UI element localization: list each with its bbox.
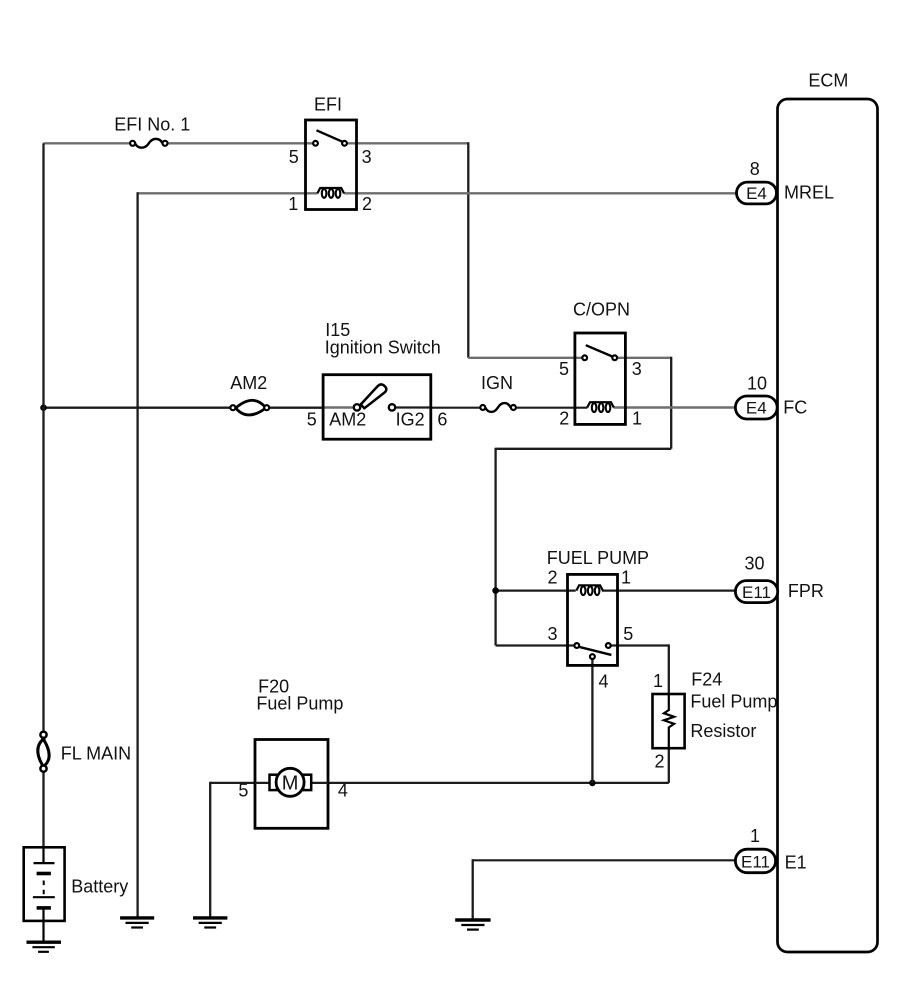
node: junction pin4/bottom run	[589, 780, 596, 787]
svg-text:3: 3	[632, 359, 642, 379]
svg-text:5: 5	[307, 410, 317, 430]
svg-text:Ignition Switch: Ignition Switch	[325, 338, 441, 358]
svg-text:AM2: AM2	[230, 373, 267, 393]
wire: EFI coil pin 2 to ECM MREL	[344, 192, 737, 194]
svg-text:Fuel Pump: Fuel Pump	[256, 694, 343, 714]
svg-text:2: 2	[654, 752, 664, 772]
coil C/OPN	[587, 402, 614, 412]
coil EFI	[317, 188, 344, 198]
wire: battery column vertical	[42, 143, 44, 735]
fuse IGN	[480, 373, 516, 412]
switch I15 Ignition Switch	[307, 320, 448, 439]
svg-text:1: 1	[750, 826, 760, 846]
svg-text:E1: E1	[785, 852, 807, 872]
brush right	[303, 775, 311, 790]
switch blade FUEL PUMP	[580, 647, 612, 655]
svg-text:IG2: IG2	[396, 410, 425, 430]
fuse EFI No. 1	[114, 114, 190, 147]
svg-text:4: 4	[338, 781, 348, 801]
svg-text:30: 30	[744, 554, 764, 574]
fuse AM2 (fusible link)	[230, 373, 269, 415]
svg-text:FL MAIN: FL MAIN	[61, 743, 131, 763]
wire: horizontal y=449	[496, 448, 672, 450]
node: junction at battery column	[40, 404, 47, 411]
svg-text:3: 3	[547, 624, 557, 644]
connector E11 pin 30 FPR	[735, 554, 824, 603]
motor F20 Fuel Pump	[238, 676, 348, 828]
brush left	[270, 775, 278, 790]
svg-text:FC: FC	[783, 398, 807, 418]
relay FUEL PUMP	[547, 548, 649, 692]
connector E4 pin 8 MREL	[737, 159, 835, 204]
svg-text:3: 3	[362, 147, 372, 167]
svg-text:1: 1	[653, 671, 663, 691]
node: junction at fuel pump relay feed	[492, 587, 499, 594]
wire: FUEL PUMP pin 4 vertical	[591, 658, 593, 783]
svg-text:FPR: FPR	[788, 581, 824, 601]
svg-text:EFI: EFI	[314, 94, 342, 114]
blade I15	[361, 384, 387, 408]
svg-text:5: 5	[238, 781, 248, 801]
motor circle M	[276, 768, 304, 796]
wire: to FUEL PUMP pin 2	[496, 589, 576, 591]
resistor F24 Fuel Pump Resistor	[653, 670, 778, 772]
svg-text:4: 4	[598, 671, 608, 691]
ECM box	[778, 71, 878, 952]
wire: C/OPN pin 3 out	[615, 357, 672, 359]
svg-text:F24: F24	[691, 670, 722, 690]
wire: C/OPN pin 1 to ECM FC	[614, 406, 736, 408]
svg-text:FUEL PUMP: FUEL PUMP	[547, 548, 649, 568]
svg-text:5: 5	[623, 624, 633, 644]
connector E11 pin 1 E1	[735, 826, 806, 873]
svg-text:ECM: ECM	[808, 71, 848, 91]
svg-text:1: 1	[288, 194, 298, 214]
relay EFI	[288, 94, 372, 213]
wire: resistor bottom lead down	[668, 747, 670, 783]
svg-text:AM2: AM2	[329, 410, 366, 430]
wire: bottom run fuel pump to resistor	[328, 782, 669, 784]
svg-text:E4: E4	[746, 184, 767, 203]
relay C/OPN	[559, 300, 642, 429]
coil FUEL PUMP	[576, 585, 603, 595]
svg-text:6: 6	[437, 410, 447, 430]
wire: fuel pump pin 5 to ground drop	[210, 782, 255, 784]
svg-text:IGN: IGN	[481, 373, 513, 393]
wire: ECM E1 to ground	[473, 859, 736, 861]
wire: ignition switch internal leads	[323, 406, 357, 408]
svg-text:1: 1	[632, 409, 642, 429]
wire: ignition switch pin 6 to C/OPN pin 2	[431, 407, 483, 409]
wire: vertical x=137.6 to ground	[136, 192, 138, 916]
svg-text:10: 10	[747, 374, 767, 394]
svg-text:M: M	[282, 773, 299, 795]
svg-text:E11: E11	[742, 583, 771, 602]
switch blade EFI	[317, 130, 344, 142]
svg-text:5: 5	[559, 359, 569, 379]
wire: top feed from battery node to EFI relay pin 5 (y=143)	[44, 142, 134, 144]
wire: vertical x=495.6 to fuel pump relay	[494, 448, 496, 646]
fusible link FL MAIN	[38, 732, 131, 772]
wire: vertical drop x=468 to C/OPN row	[467, 142, 469, 358]
svg-text:2: 2	[362, 194, 372, 214]
svg-text:E4: E4	[746, 399, 767, 418]
svg-text:2: 2	[559, 409, 569, 429]
ground: EFI coil return (x=137.6)	[120, 918, 154, 928]
svg-text:EFI No. 1: EFI No. 1	[114, 114, 190, 134]
wire: EFI coil pin 1 to left	[138, 192, 318, 194]
ground: ECM E1 (x=472.7)	[455, 920, 490, 930]
ground: battery	[27, 942, 62, 952]
wire: FUEL PUMP pin 1 to ECM FPR	[602, 589, 736, 591]
ground: fuel pump (x=210.2)	[193, 918, 227, 928]
switch blade C/OPN	[586, 345, 613, 356]
svg-text:MREL: MREL	[784, 182, 834, 202]
svg-text:5: 5	[289, 147, 299, 167]
svg-text:1: 1	[621, 568, 631, 588]
wire: main bus battery to ignition switch	[44, 407, 234, 409]
svg-text:C/OPN: C/OPN	[573, 300, 630, 320]
wire: to FUEL PUMP pin 3	[496, 644, 577, 646]
svg-text:Fuel Pump: Fuel Pump	[690, 692, 777, 712]
battery	[24, 847, 129, 942]
connector E4 pin 10 FC	[735, 374, 807, 420]
svg-text:Battery: Battery	[71, 877, 128, 897]
wire: into C/OPN pin 5	[468, 357, 584, 359]
wire: vertical x=671	[670, 357, 672, 449]
wire: EFI pin 3 to vertical drop	[345, 142, 469, 144]
wire: FUEL PUMP pin 5 to resistor	[608, 644, 669, 646]
svg-text:2: 2	[547, 568, 557, 588]
svg-text:E11: E11	[741, 852, 770, 871]
svg-text:Resistor: Resistor	[690, 721, 756, 741]
svg-text:8: 8	[750, 159, 760, 179]
